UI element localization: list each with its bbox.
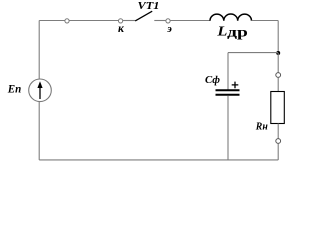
emitter contact circle of VT1 — [166, 19, 170, 23]
wire capacitor branch vertical down to top plate — [227, 53, 229, 90]
svg-text:Rн: Rн — [255, 122, 268, 133]
node N1 open circle — [65, 19, 69, 23]
wire left side vertical bottom segment — [38, 102, 40, 160]
collector contact circle of VT1 — [119, 19, 123, 23]
wire from switch gap to emitter contact — [154, 20, 166, 22]
pin label э — [166, 23, 172, 35]
wire bottom rail — [39, 159, 278, 161]
wire right side vertical from corner to junction — [277, 21, 279, 54]
svg-text:VT1: VT1 — [138, 0, 160, 12]
label Lдр — [216, 23, 248, 39]
resistor top terminal circle — [276, 73, 281, 78]
svg-text:Eп: Eп — [7, 81, 22, 95]
transistor VT1 switch arm — [135, 11, 152, 21]
label VT1 — [138, 0, 160, 12]
wire from collector contact to switch arm — [123, 20, 135, 22]
svg-text:др: др — [227, 24, 248, 39]
wire from top terminal to resistor body — [277, 78, 279, 92]
label Сф — [205, 74, 220, 86]
wire from resistor body to bottom terminal — [277, 124, 279, 139]
wire from inductor to top right corner — [252, 20, 279, 22]
junction dot node A — [276, 51, 280, 55]
pin label к — [118, 23, 125, 35]
svg-text:Сф: Сф — [205, 74, 220, 86]
inductor Lдр — [210, 14, 252, 21]
svg-text:L: L — [216, 23, 227, 38]
label Rн — [255, 122, 268, 133]
source Eп circle — [29, 79, 52, 102]
wire from emitter contact to inductor — [170, 20, 210, 22]
wire top from left corner to node N1 — [39, 20, 65, 22]
svg-text:к: к — [118, 23, 125, 35]
capacitor Сф bottom plate — [216, 94, 240, 96]
svg-text:э: э — [166, 23, 172, 35]
wire from capacitor bottom plate to bottom rail — [227, 96, 229, 160]
label Eп — [7, 81, 22, 95]
source Eп arrow — [37, 81, 42, 99]
wire left side vertical top segment — [38, 21, 40, 80]
resistor bottom terminal circle — [276, 139, 281, 144]
polarity mark + — [232, 82, 239, 89]
capacitor Сф top plate — [216, 89, 240, 91]
resistor Rн body — [271, 92, 285, 124]
wire right side vertical from junction to resistor top contact — [277, 53, 279, 73]
wire capacitor branch horizontal — [228, 52, 278, 54]
wire from node N1 to collector contact — [69, 20, 118, 22]
wire from bottom terminal to bottom rail — [277, 144, 279, 161]
